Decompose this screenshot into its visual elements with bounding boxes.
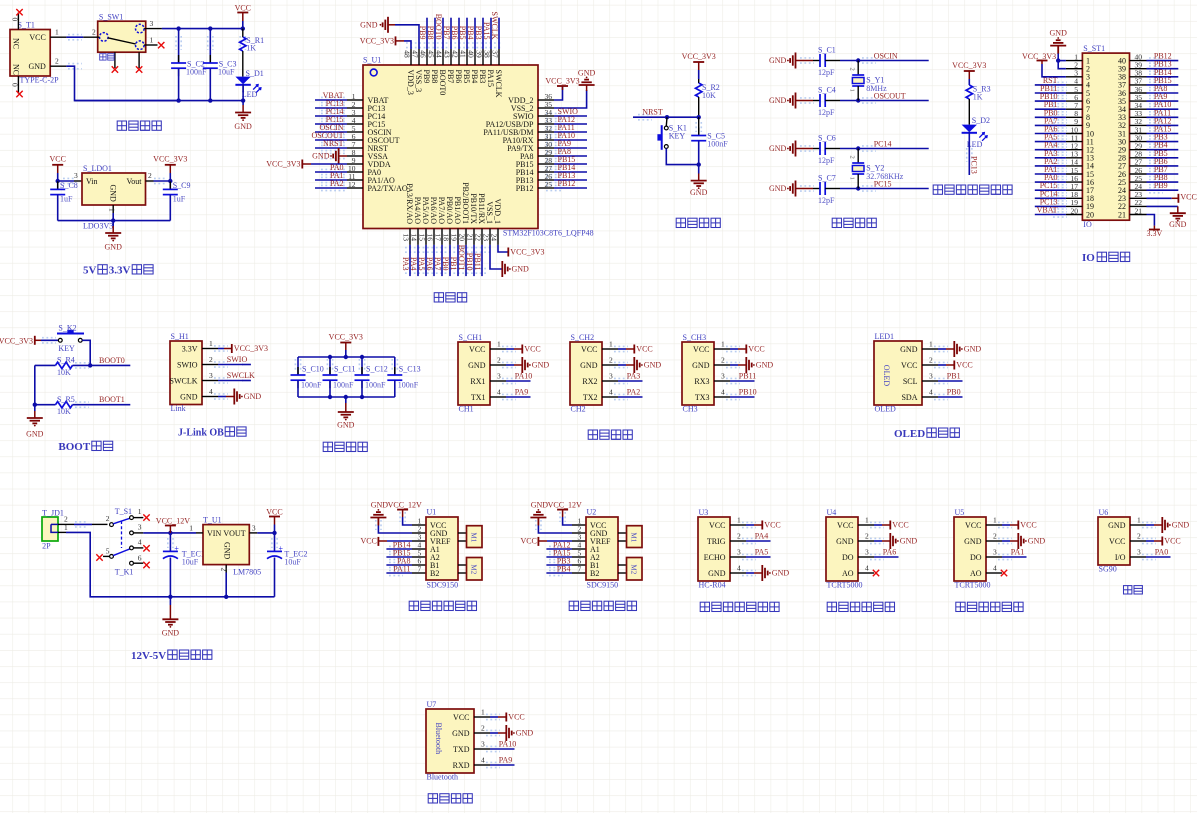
- LED1.4 selection marks: [934, 393, 948, 395]
- svg-text:VCC: VCC: [508, 713, 524, 722]
- junction VCC rail C2: [176, 26, 180, 30]
- U1 pin 15 stub: [425, 229, 427, 245]
- svg-text:GND: GND: [337, 421, 355, 430]
- svg-text:14: 14: [409, 234, 418, 242]
- svg-text:GND: GND: [690, 188, 708, 197]
- ground GND (filter): [345, 397, 347, 403]
- svg-text:U3: U3: [699, 508, 709, 517]
- svg-text:45: 45: [426, 50, 435, 58]
- wire ST1.30: [1147, 141, 1179, 143]
- S_CH1.4 selection marks: [502, 393, 516, 395]
- svg-text:GND: GND: [769, 144, 787, 153]
- S1 pole2 lever: [113, 549, 130, 556]
- cap right lead (OSCOUT): [825, 100, 840, 102]
- wire JD1.2 to S1: [74, 523, 92, 525]
- power flag VCC_3V3 (VDD_3): [395, 36, 397, 45]
- wire U1.42: [458, 18, 460, 49]
- ST1 pin 36 stub: [1130, 92, 1147, 94]
- svg-text:21: 21: [1118, 210, 1126, 219]
- svg-text:PA7: PA7: [433, 257, 442, 271]
- svg-text:RX2: RX2: [582, 377, 597, 386]
- U1 pin 6 stub: [347, 139, 363, 141]
- svg-text:SWCLK: SWCLK: [227, 371, 255, 380]
- svg-text:GND: GND: [532, 361, 550, 370]
- svg-text:100nF: 100nF: [301, 381, 322, 390]
- wire H1 SWCLK extension: [242, 380, 251, 382]
- svg-text:1: 1: [721, 340, 725, 349]
- key K2: [57, 333, 84, 335]
- title crystal circuit: [832, 218, 841, 227]
- title ultrasonic module: [700, 602, 709, 611]
- svg-text:3.3V: 3.3V: [109, 265, 131, 277]
- LED1 pin 2 stub: [922, 364, 938, 366]
- U7 pin 4 stub: [474, 764, 490, 766]
- svg-text:HC-R04: HC-R04: [699, 581, 726, 590]
- svg-text:S_D2: S_D2: [972, 116, 990, 125]
- svg-text:GND: GND: [756, 361, 774, 370]
- ST1 pin 10 stub: [1066, 133, 1083, 135]
- svg-text:M1: M1: [469, 533, 477, 543]
- ST1 pin 6 stub: [1066, 100, 1083, 102]
- svg-text:S_C8: S_C8: [60, 181, 78, 190]
- LED1.3 selection marks: [934, 377, 948, 379]
- svg-text:VCC: VCC: [29, 33, 45, 42]
- wire LED1.2 vcc: [938, 364, 946, 366]
- U4 pin 3 stub: [858, 556, 874, 558]
- svg-text:1: 1: [1137, 516, 1141, 525]
- svg-text:GND: GND: [578, 68, 596, 77]
- ST1 pin 18 stub: [1066, 197, 1083, 199]
- U1 pin 43 stub: [450, 49, 452, 65]
- capacitor S_C10: [297, 367, 299, 375]
- S_CH1.2 selection marks: [502, 361, 516, 363]
- SW1 pin 3 stub: [144, 28, 162, 30]
- svg-text:PB0: PB0: [947, 388, 961, 397]
- junction NRST R2: [697, 115, 701, 119]
- capacitor S_C13: [394, 367, 396, 375]
- ground GND (U4.2): [890, 533, 899, 549]
- svg-text:GND: GND: [1172, 521, 1190, 530]
- switch SW1: [98, 21, 146, 52]
- wire ST1.4: [1035, 84, 1066, 86]
- svg-text:LDO3V3: LDO3V3: [83, 221, 113, 230]
- U6.3 selection marks: [1142, 553, 1156, 555]
- power flag VCC (ST1.23): [1177, 194, 1179, 203]
- wire U2 pin4: [546, 548, 572, 550]
- U1 pin 7 stub: [347, 147, 363, 149]
- svg-text:GND: GND: [180, 392, 198, 401]
- U1 pin 44 stub: [442, 49, 444, 65]
- wire S_CH3.1 vcc: [730, 348, 738, 350]
- svg-text:PB1: PB1: [947, 372, 961, 381]
- LED1.2 selection marks: [934, 361, 948, 363]
- svg-text:VCC_3V3: VCC_3V3: [545, 76, 579, 85]
- svg-text:PA2: PA2: [627, 388, 641, 397]
- ST1 pin 29 stub: [1130, 149, 1147, 151]
- T1 bottom pin 0: [17, 76, 19, 94]
- wire OSCOUT: [858, 100, 929, 102]
- U1 pin 5 stub: [347, 131, 363, 133]
- svg-text:GND: GND: [580, 361, 598, 370]
- wire PC14: [858, 148, 929, 150]
- U5 pin 1 stub: [986, 524, 1002, 526]
- svg-text:S_C1: S_C1: [818, 46, 836, 55]
- wire ST1.27: [1147, 165, 1179, 167]
- wire U1 vref: [387, 540, 412, 542]
- S1 pole2 common contact: [110, 555, 114, 559]
- svg-text:SDC9150: SDC9150: [587, 580, 619, 589]
- svg-text:PA1: PA1: [1011, 548, 1025, 557]
- module S_CH3 body: [682, 342, 714, 405]
- wire S_CH3.2 gnd: [730, 364, 738, 366]
- S1 throw 6 contact: [130, 561, 134, 565]
- wire U1.34: [554, 115, 587, 117]
- wire ST1.40: [1147, 60, 1179, 62]
- svg-text:M1: M1: [629, 533, 637, 543]
- svg-text:PA6: PA6: [883, 548, 897, 557]
- svg-text:OLED: OLED: [875, 405, 897, 414]
- svg-text:U6: U6: [1099, 508, 1109, 517]
- crystal Y2 bottom lead: [857, 174, 859, 189]
- wire VOUT to VCC: [257, 532, 274, 534]
- wire ST1.16: [1035, 181, 1066, 183]
- LED1 pin 4 stub: [922, 396, 938, 398]
- svg-text:100nF: 100nF: [398, 381, 419, 390]
- wire U1.35 to GND: [554, 90, 587, 108]
- wire U1.11: [315, 179, 347, 181]
- U1 pin 21 stub: [473, 229, 475, 245]
- U1 pin 39 stub: [482, 49, 484, 65]
- cap EC2 bottom lead: [274, 558, 276, 597]
- module S_CH1 body: [458, 342, 490, 405]
- svg-text:VDD_3: VDD_3: [406, 70, 415, 95]
- power flag VCC_3V3 (VDD_2): [557, 85, 568, 87]
- junction NRST K1: [665, 115, 669, 119]
- svg-text:4: 4: [138, 537, 142, 546]
- svg-text:PA3/RX/AO: PA3/RX/AO: [405, 183, 414, 224]
- wire U3.1 vcc: [746, 524, 754, 526]
- svg-text:PA9: PA9: [515, 388, 529, 397]
- U5 pin 4 stub: [986, 572, 1002, 574]
- junction crystal (OSCOUT): [856, 98, 860, 102]
- wire U1 gnd: [378, 526, 412, 534]
- wire S_H1.3: [218, 380, 243, 382]
- svg-text:AO: AO: [842, 569, 854, 578]
- svg-text:IO: IO: [1082, 252, 1095, 264]
- svg-text:VCC: VCC: [693, 345, 709, 354]
- svg-text:S_SW1: S_SW1: [99, 13, 123, 22]
- svg-text:GND: GND: [223, 542, 232, 560]
- svg-text:PA3: PA3: [401, 257, 410, 271]
- capacitor C12 bottom lead: [361, 380, 363, 397]
- capacitor (OSCIN): [819, 54, 821, 67]
- svg-text:TYPE-C-2P: TYPE-C-2P: [20, 76, 60, 85]
- svg-text:GND: GND: [644, 361, 662, 370]
- svg-text:3: 3: [993, 548, 997, 557]
- junction filter top C12: [360, 355, 364, 359]
- motor driver U1 body: [426, 517, 458, 580]
- wire ST1.38: [1147, 76, 1179, 78]
- SW1 pin 1 no-connect X: [158, 42, 164, 48]
- junction buck gnd stem: [168, 595, 172, 599]
- svg-text:4: 4: [481, 756, 485, 765]
- cap EC1 top lead: [169, 533, 171, 552]
- ground GND (VSS_3): [380, 17, 389, 33]
- svg-text:VCC: VCC: [1180, 193, 1196, 202]
- wire U6.3: [1146, 556, 1171, 558]
- U6.1 selection marks: [1142, 521, 1156, 523]
- junction C8 top: [56, 179, 60, 183]
- svg-text:3: 3: [497, 372, 501, 381]
- wire U1.17: [441, 245, 443, 276]
- svg-text:1: 1: [849, 177, 856, 180]
- svg-text:TRIG: TRIG: [707, 537, 726, 546]
- svg-text:39: 39: [474, 50, 483, 58]
- svg-text:2: 2: [929, 356, 933, 365]
- wire S_CH1.3: [506, 380, 531, 382]
- ST1 pin 23 stub: [1130, 197, 1147, 199]
- U1 pin 1 stub: [347, 99, 363, 101]
- svg-text:VCC_3V3: VCC_3V3: [0, 336, 33, 345]
- ground GND (U5.2): [1018, 533, 1027, 549]
- connector T1: [10, 30, 50, 77]
- svg-text:GND: GND: [452, 729, 470, 738]
- svg-text:PB7: PB7: [446, 70, 455, 84]
- regulator U1 LM7805 body: [203, 525, 249, 565]
- SW1 contact throw 1: [136, 41, 145, 50]
- title run indicator: [933, 185, 942, 194]
- svg-text:PA10: PA10: [515, 372, 533, 381]
- svg-text:VCC: VCC: [469, 345, 485, 354]
- svg-text:12pF: 12pF: [818, 108, 835, 117]
- svg-text:TX1: TX1: [471, 393, 486, 402]
- svg-text:100nF: 100nF: [333, 381, 354, 390]
- resistor R4: [56, 362, 73, 368]
- capacitor (OSCOUT): [819, 94, 821, 107]
- LDO1 pin 3 stub: [74, 180, 82, 182]
- svg-text:SWCLK: SWCLK: [494, 70, 503, 98]
- wire U1.10: [315, 171, 347, 173]
- D1 bottom lead: [242, 85, 244, 101]
- wire ST1.22 to GND: [1147, 205, 1178, 207]
- LED D1: [235, 77, 250, 85]
- svg-text:2: 2: [92, 28, 96, 37]
- wire S_CH3.4: [730, 396, 755, 398]
- svg-text:OLED: OLED: [894, 428, 925, 440]
- U1 pin 3 stub: [347, 115, 363, 117]
- svg-text:PB6: PB6: [450, 26, 459, 40]
- mcu U1 body: [363, 65, 538, 229]
- svg-text:21: 21: [465, 234, 474, 242]
- svg-text:1: 1: [849, 89, 856, 92]
- crystal Y2 top lead: [857, 149, 859, 164]
- svg-text:S_R4: S_R4: [57, 356, 75, 365]
- wire U1 pin6: [386, 564, 412, 566]
- ST1 pin 1 stub: [1066, 60, 1083, 62]
- wire S_H1.2: [218, 364, 243, 366]
- svg-text:0: 0: [11, 83, 20, 87]
- svg-text:TXD: TXD: [453, 745, 470, 754]
- svg-text:S_CH1: S_CH1: [459, 333, 483, 342]
- svg-text:VCC_3V3: VCC_3V3: [360, 36, 394, 45]
- power flag VCC_3V3 (VDD_1): [507, 248, 509, 257]
- U1 pin 34 stub: [538, 115, 554, 117]
- wire ST1.28: [1147, 157, 1179, 159]
- svg-text:S_ST1: S_ST1: [1083, 44, 1105, 53]
- svg-text:S_C7: S_C7: [818, 174, 836, 183]
- wire U1.37: [498, 18, 500, 49]
- U1 pin 23 stub: [489, 229, 491, 245]
- svg-text:4: 4: [865, 564, 869, 573]
- svg-text:GND: GND: [468, 361, 486, 370]
- ST1 pin 14 stub: [1066, 165, 1083, 167]
- title servo: [1124, 586, 1133, 594]
- svg-text:GND: GND: [769, 56, 787, 65]
- svg-text:LED1: LED1: [875, 332, 895, 341]
- svg-text:SDA: SDA: [901, 393, 917, 402]
- wire ST1.35: [1147, 100, 1179, 102]
- wire ST1.3 vcc: [1042, 64, 1066, 77]
- svg-text:VCC: VCC: [956, 361, 972, 370]
- wire U3.4 gnd: [746, 572, 754, 574]
- svg-text:2: 2: [209, 355, 213, 364]
- svg-text:AO: AO: [970, 569, 982, 578]
- SW1 bottom stub B: [138, 52, 140, 68]
- svg-text:PB1: PB1: [449, 257, 458, 271]
- U4.4 no-connect X: [873, 570, 879, 576]
- wire U1.21: [473, 245, 475, 276]
- U1 pin 48 stub: [410, 49, 412, 65]
- svg-text:3: 3: [209, 371, 213, 380]
- U1 pin 42 stub: [458, 49, 460, 65]
- svg-text:4: 4: [737, 564, 741, 573]
- svg-text:SWCLK: SWCLK: [170, 376, 198, 385]
- svg-text:SWCLK: SWCLK: [490, 12, 499, 40]
- svg-text:PA3: PA3: [627, 372, 641, 381]
- S_H1.1 selection marks: [214, 345, 228, 347]
- svg-text:VOUT: VOUT: [223, 529, 245, 538]
- U1 pin 25 stub: [538, 187, 554, 189]
- U1 pin 13 stub: [409, 229, 411, 245]
- svg-text:PB12: PB12: [516, 184, 534, 193]
- capacitor C9 top lead: [169, 181, 171, 189]
- electrolytic cap T_EC1: [163, 550, 178, 552]
- svg-text:GND: GND: [900, 345, 918, 354]
- S1 pole2 X: [96, 554, 102, 560]
- U5.3 selection marks: [998, 553, 1012, 555]
- wire U1.46: [426, 18, 428, 49]
- power flag VCC (U7.1): [505, 713, 507, 722]
- connector JD1: [42, 517, 58, 541]
- U6 pin 1 stub: [1130, 524, 1146, 526]
- svg-text:10K: 10K: [702, 91, 716, 100]
- S_CH1 pin 1 stub: [490, 348, 506, 350]
- U1 pin 14 stub: [417, 229, 419, 245]
- wire R5 right / BOOT1 net: [73, 404, 131, 406]
- svg-text:GND: GND: [244, 392, 262, 401]
- JD1 inner pins: [51, 523, 58, 525]
- resistor R1: [240, 37, 246, 51]
- svg-text:J-Link OB: J-Link OB: [178, 428, 224, 439]
- svg-text:T_K1: T_K1: [115, 568, 134, 577]
- svg-text:SDC9150: SDC9150: [427, 580, 459, 589]
- resistor R3: [966, 85, 972, 99]
- svg-text:2: 2: [849, 156, 856, 159]
- svg-text:2: 2: [220, 568, 229, 572]
- svg-text:2: 2: [993, 532, 997, 541]
- T1 pin 2 stub: [50, 65, 66, 67]
- svg-text:3: 3: [929, 372, 933, 381]
- wire U1.13: [409, 245, 411, 276]
- U3 pin 3 stub: [730, 556, 746, 558]
- svg-text:VCC: VCC: [266, 507, 282, 516]
- svg-text:RXD: RXD: [453, 761, 470, 770]
- SW1 contact common: [100, 33, 109, 42]
- svg-text:TX3: TX3: [695, 393, 710, 402]
- wire S_H1.1 vcc: [218, 348, 224, 350]
- U1 pin 2 stub: [347, 107, 363, 109]
- svg-text:2: 2: [148, 171, 152, 180]
- capacitor C8 bottom lead: [57, 195, 59, 221]
- power flag VCC_3V3 (S_H1.1): [231, 344, 233, 353]
- svg-text:VDD_1: VDD_1: [493, 199, 502, 224]
- svg-text:S_U1: S_U1: [363, 56, 381, 65]
- svg-text:S_C12: S_C12: [366, 364, 388, 373]
- junction GND rail C2: [176, 98, 180, 102]
- svg-text:VCC: VCC: [524, 345, 540, 354]
- ST1 pin 20 stub: [1066, 214, 1083, 216]
- wire U2 pin7: [546, 572, 572, 574]
- wire BOOT left rail: [34, 365, 36, 404]
- svg-text:1: 1: [481, 708, 485, 717]
- svg-text:VCC: VCC: [520, 536, 536, 545]
- wire U1.30: [554, 147, 587, 149]
- capacitor C10 bottom lead: [297, 380, 299, 397]
- svg-text:S_H1: S_H1: [171, 332, 189, 341]
- S1 throw 4 lead: [133, 547, 143, 549]
- wire ST1.36: [1147, 92, 1179, 94]
- capacitor C3 bottom lead: [209, 68, 211, 100]
- wire R4 right / BOOT0 net: [73, 364, 131, 366]
- svg-text:8MHz: 8MHz: [866, 84, 887, 93]
- junction filter bottom C11: [328, 395, 332, 399]
- svg-text:GND: GND: [769, 184, 787, 193]
- svg-text:3: 3: [609, 372, 613, 381]
- svg-text:PB12: PB12: [558, 179, 576, 188]
- U1 pin 10 stub: [347, 171, 363, 173]
- U5.4 no-connect X: [1001, 570, 1007, 576]
- ground GND (S_CH3.2): [746, 357, 755, 373]
- U1 pin 37 stub: [498, 49, 500, 65]
- wire ST1.15: [1035, 173, 1066, 175]
- svg-text:PA7/AO: PA7/AO: [437, 197, 446, 224]
- svg-text:23: 23: [481, 234, 490, 242]
- svg-text:PB5: PB5: [458, 26, 467, 40]
- regulator LDO1: [82, 173, 146, 205]
- U1 pin 32 stub: [538, 131, 554, 133]
- svg-text:GND: GND: [512, 265, 530, 274]
- svg-text:VCC: VCC: [1020, 521, 1036, 530]
- wire ST1.32: [1147, 124, 1179, 126]
- S1 throw 6 X: [143, 562, 149, 568]
- svg-text:DO: DO: [842, 553, 854, 562]
- wire U1 pin4: [386, 548, 412, 550]
- svg-text:U2: U2: [587, 508, 597, 517]
- module U7 body: [426, 709, 474, 773]
- ground GND (U6.1): [1162, 517, 1171, 533]
- svg-text:PB2/BOOT1: PB2/BOOT1: [461, 182, 470, 224]
- capacitor C9: [169, 181, 171, 189]
